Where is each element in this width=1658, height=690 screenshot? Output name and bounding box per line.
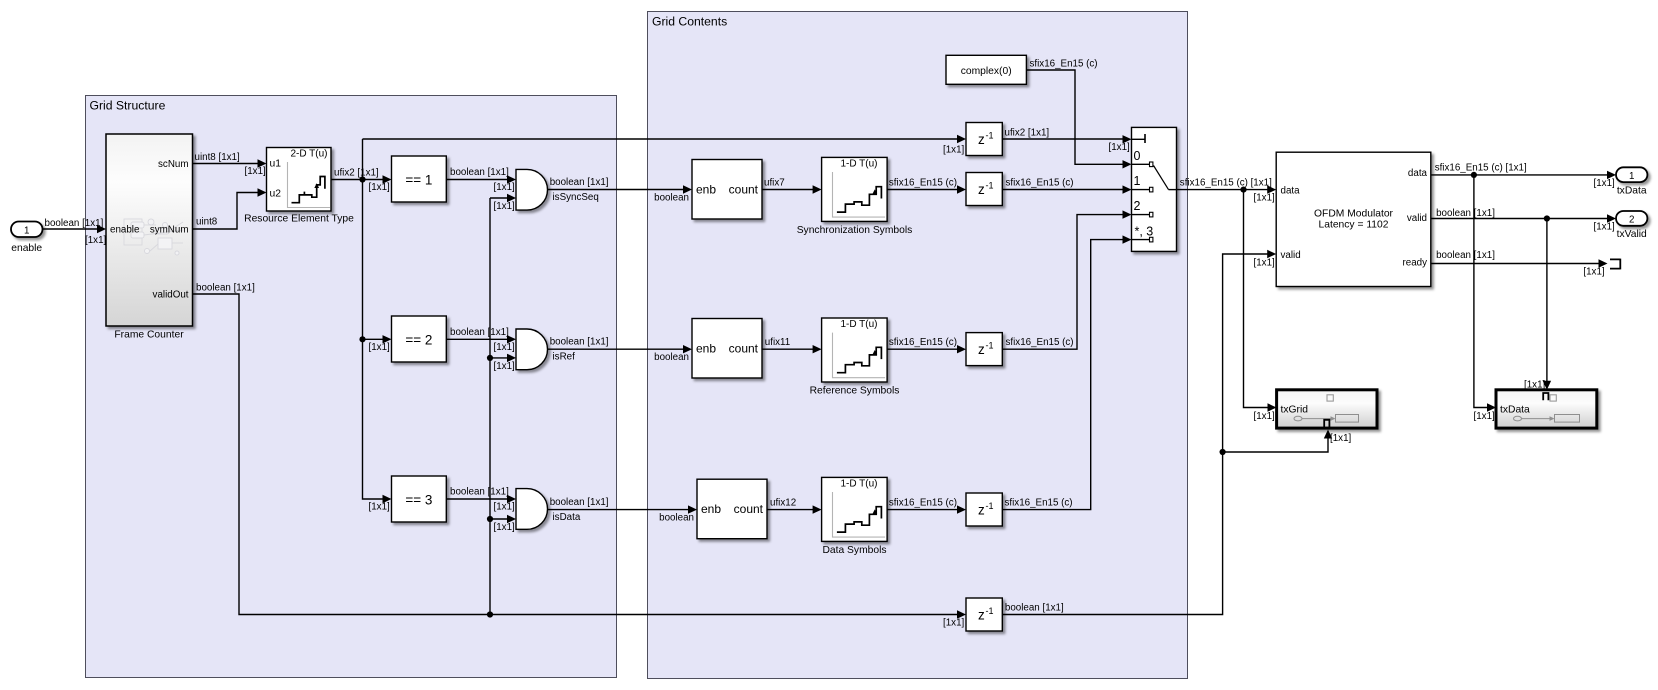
area Grid Contents [648,12,1188,679]
terminator symbol on ready [1610,259,1620,270]
svg-text:enb: enb [696,183,716,197]
delay block Z^-1 d5 [966,598,1002,631]
svg-text:count: count [734,502,764,516]
svg-text:enable: enable [110,225,140,236]
svg-text:ufix2 [1x1]: ufix2 [1x1] [334,168,379,179]
svg-text:== 2: == 2 [405,333,432,348]
svg-text:[1x1]: [1x1] [1254,193,1276,204]
svg-text:[1x1]: [1x1] [1254,258,1276,269]
svg-text:*, 3: *, 3 [1135,225,1154,239]
wire switch-out branch to txGrid left [1244,190,1277,422]
wire validOut down-long [193,283,967,619]
compare block ==3 [392,476,447,522]
wire AND gate 2 in2 stub [490,354,516,372]
svg-text:data: data [1408,168,1428,179]
svg-text:== 3: == 3 [405,493,432,508]
svg-text:[1x1]: [1x1] [369,502,391,513]
area Grid Structure [86,96,617,678]
wire OFDM data out to outport txData [1431,163,1616,189]
svg-text:[1x1]: [1x1] [1109,142,1131,153]
wire OFDM valid branch to txData scope top [1524,219,1551,391]
wire REType out to ==1 with junction [331,168,392,194]
constant block complex(0) [946,55,1026,84]
svg-text:ready: ready [1402,258,1427,269]
svg-text:sfix16_En15 (c): sfix16_En15 (c) [889,337,957,348]
wire delay d4 out to switch port *,3 [1002,235,1131,509]
wire ==1 out to AND gate in1 [446,167,516,193]
svg-text:[1x1]: [1x1] [494,342,516,353]
svg-text:ufix2 [1x1]: ufix2 [1x1] [1005,128,1050,139]
svg-text:sfix16_En15 (c): sfix16_En15 (c) [889,177,957,188]
wire delay d1 out to switch control [1002,128,1131,154]
svg-text:[1x1]: [1x1] [245,166,267,177]
svg-text:valid: valid [1407,213,1427,224]
svg-text:[1x1]: [1x1] [494,361,516,372]
logical AND gate 1 [516,169,547,210]
svg-text:count: count [729,342,759,356]
delay block Z^-1 d2 [966,173,1002,206]
wire delay d2 out to switch port 1 [1002,177,1131,194]
svg-text:-1: -1 [986,606,994,616]
svg-text:boolean [1x1]: boolean [1x1] [196,283,255,294]
wire counter 3 count to LUT [767,497,822,513]
svg-text:z: z [978,503,985,518]
svg-text:sfix16_En15 (c): sfix16_En15 (c) [1006,337,1074,348]
svg-text:[1x1]: [1x1] [85,235,107,246]
svg-text:-1: -1 [986,130,994,140]
block counter 2 enb/count [692,319,762,379]
svg-text:[1x1]: [1x1] [494,182,516,193]
svg-text:txGrid: txGrid [1281,405,1309,416]
block counter 3 enb/count [697,479,767,539]
wire LUT 1 out to delay [887,177,966,193]
svg-text:[1x1]: [1x1] [1594,222,1616,233]
svg-text:1: 1 [1629,171,1634,182]
wire vertical validOut-branch to gate in2 ports [487,198,493,618]
svg-text:z: z [978,132,985,147]
svg-text:1-D T(u): 1-D T(u) [840,158,877,169]
delay block Z^-1 d4 [966,493,1002,526]
wire LUT 2 out to delay [887,337,966,353]
wire symNum to u2 [193,188,267,229]
wire gate 3 out to counter (isData) [548,497,697,523]
block counter 1 enb/count [692,160,762,220]
svg-text:[1x1]: [1x1] [1474,411,1496,422]
wire delay d5 out to OFDM valid [1002,250,1276,615]
wire OFDM ready out to terminator [1431,250,1608,278]
svg-text:boolean [1x1]: boolean [1x1] [1436,250,1495,261]
svg-text:z: z [978,182,985,197]
outport 1 txData [1616,167,1647,196]
svg-text:ufix11: ufix11 [765,337,790,348]
compare block ==2 [392,316,447,362]
svg-text:symNum: symNum [150,225,189,236]
svg-text:sfix16_En15 (c): sfix16_En15 (c) [1005,497,1073,508]
svg-text:boolean [1x1]: boolean [1x1] [1436,208,1495,219]
svg-text:[1x1]: [1x1] [943,618,965,629]
svg-text:[1x1]: [1x1] [494,502,516,513]
svg-text:validOut: validOut [153,290,189,301]
wire OFDM data branch to txData scope left [1474,175,1497,422]
compare block ==1 [392,156,447,202]
svg-text:boolean [1x1]: boolean [1x1] [45,218,104,229]
svg-text:[1x1]: [1x1] [369,182,391,193]
block 1-D lookup Reference Symbols [810,318,900,397]
svg-text:sfix16_En15 (c) [1x1]: sfix16_En15 (c) [1x1] [1180,177,1272,188]
svg-text:complex(0): complex(0) [961,66,1012,77]
svg-text:[1x1]: [1x1] [1594,178,1616,189]
svg-text:-1: -1 [986,341,994,351]
svg-text:sfix16_En15 (c): sfix16_En15 (c) [889,497,957,508]
svg-text:scNum: scNum [158,159,188,170]
wire gate 2 out to counter (isRef) [548,337,692,364]
svg-text:OFDM Modulator: OFDM Modulator [1314,209,1394,220]
logical AND gate 2 [516,329,548,370]
svg-text:boolean: boolean [659,513,694,524]
svg-text:boolean [1x1]: boolean [1x1] [550,497,609,508]
wire ==2 out to AND gate in1 [446,327,516,353]
svg-text:boolean [1x1]: boolean [1x1] [550,337,609,348]
svg-text:isData: isData [553,512,581,523]
wire AND gate 1 in2 stub [490,194,516,212]
wire scNum to u1 [193,152,267,177]
svg-text:2-D T(u): 2-D T(u) [290,149,327,160]
block 1-D lookup Synchronization Symbols [797,157,913,236]
logical AND gate 3 [516,489,547,530]
wire delay d5 in label [943,618,965,629]
svg-text:Resource Element Type: Resource Element Type [244,214,354,225]
svg-text:1-D T(u): 1-D T(u) [840,319,877,330]
wire enable to Frame Counter [43,218,107,246]
svg-text:ufix12: ufix12 [770,497,796,508]
svg-text:boolean [1x1]: boolean [1x1] [450,167,509,178]
wire REType junction vertical branch [359,139,391,513]
block 1-D lookup Data Symbols [822,477,888,556]
svg-text:0: 0 [1134,149,1141,163]
block OFDM Modulator [1276,152,1431,286]
svg-text:[1x1]: [1x1] [1254,411,1276,422]
svg-text:txData: txData [1500,405,1530,416]
svg-text:Latency = 1102: Latency = 1102 [1319,220,1389,231]
svg-text:txData: txData [1617,186,1647,197]
svg-text:boolean: boolean [654,352,689,363]
wire AND gate 3 in2 stub [490,515,516,533]
inport 1 enable [11,222,43,255]
delay block Z^-1 d3 [966,333,1002,366]
svg-text:isSyncSeq: isSyncSeq [553,192,599,203]
wire complex(0) to switch port 0 [1026,59,1131,169]
scope txGrid [1277,390,1377,428]
svg-text:Data Symbols: Data Symbols [822,545,886,556]
wire ==3 out to AND gate in1 [446,487,516,513]
svg-text:2: 2 [1134,199,1141,213]
scope txData [1496,390,1597,428]
svg-text:uint8: uint8 [196,217,218,228]
wire counter 2 count to LUT [762,337,822,353]
wire boolean branch to txGrid bottom [1220,430,1352,456]
svg-text:sfix16_En15 (c): sfix16_En15 (c) [1030,59,1098,70]
wire long top to delay ufix2 [363,135,967,156]
svg-text:ufix7: ufix7 [764,177,785,188]
svg-text:Reference Symbols: Reference Symbols [810,386,900,397]
svg-text:Grid Structure: Grid Structure [90,99,166,113]
svg-text:[1x1]: [1x1] [943,145,965,156]
block Resource Element Type 2-D lookup [244,148,354,225]
svg-text:boolean [1x1]: boolean [1x1] [550,177,609,188]
wire delay d3 out to switch port 2 [1002,210,1131,349]
svg-text:-1: -1 [986,181,994,191]
wire switch out to OFDM data [1177,177,1277,203]
svg-text:2: 2 [1629,215,1634,226]
svg-text:[1x1]: [1x1] [494,522,516,533]
svg-text:sfix16_En15 (c): sfix16_En15 (c) [1006,177,1074,188]
svg-text:valid: valid [1281,250,1301,261]
svg-text:Frame Counter: Frame Counter [114,330,184,341]
svg-text:Synchronization Symbols: Synchronization Symbols [797,225,913,236]
svg-text:boolean [1x1]: boolean [1x1] [450,327,509,338]
multiport switch U-switch [1132,127,1177,251]
svg-text:enable: enable [11,243,42,254]
svg-text:1: 1 [24,226,29,237]
svg-text:boolean: boolean [654,193,689,204]
svg-text:Grid Contents: Grid Contents [652,15,727,29]
svg-text:boolean [1x1]: boolean [1x1] [1005,603,1064,614]
svg-text:sfix16_En15 (c) [1x1]: sfix16_En15 (c) [1x1] [1435,163,1527,174]
wire counter 1 count to LUT [762,177,822,193]
svg-text:z: z [978,608,985,623]
svg-text:enb: enb [696,342,716,356]
svg-text:-1: -1 [986,501,994,511]
svg-text:[1x1]: [1x1] [1330,433,1352,444]
svg-text:[1x1]: [1x1] [1583,267,1605,278]
svg-text:enb: enb [701,502,721,516]
svg-text:u2: u2 [270,189,282,200]
svg-text:1: 1 [1134,174,1141,188]
block Frame Counter [106,134,193,341]
svg-text:u1: u1 [270,159,282,170]
wire LUT 3 out to delay [887,497,966,513]
svg-text:isRef: isRef [553,352,576,363]
svg-text:boolean [1x1]: boolean [1x1] [450,487,509,498]
svg-text:uint8 [1x1]: uint8 [1x1] [195,152,240,163]
wire gate 1 out to counter (isSyncSeq) [548,177,692,204]
svg-text:== 1: == 1 [405,173,432,188]
outport 2 txValid [1616,211,1647,240]
delay block Z^-1 d1 [966,123,1002,156]
svg-text:count: count [729,183,759,197]
svg-text:data: data [1281,186,1301,197]
svg-text:1-D T(u): 1-D T(u) [840,478,877,489]
svg-text:[1x1]: [1x1] [494,201,516,212]
svg-text:txValid: txValid [1617,229,1647,240]
wire OFDM valid out to outport txValid [1431,208,1616,233]
svg-text:[1x1]: [1x1] [369,342,391,353]
svg-text:z: z [978,342,985,357]
